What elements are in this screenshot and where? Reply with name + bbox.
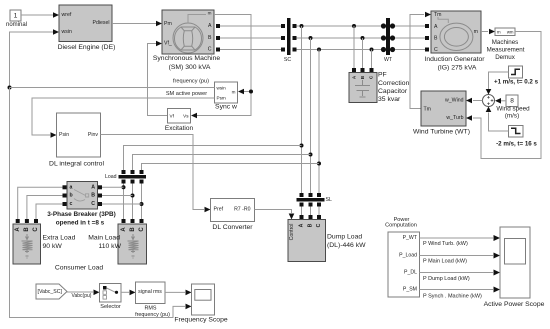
svg-text:-2 m/s, t= 16 s: -2 m/s, t= 16 s [496, 141, 537, 148]
svg-text:P_DL: P_DL [404, 270, 417, 276]
svg-text:P Dump Load (kW): P Dump Load (kW) [423, 276, 470, 282]
svg-text:Psin: Psin [59, 132, 69, 138]
svg-text:A: A [299, 223, 305, 227]
wire P_Load to scope [420, 253, 501, 265]
wire sum to WT w_Wind [466, 98, 483, 104]
svg-text:(IG) 275 kVA: (IG) 275 kVA [438, 65, 477, 72]
svg-text:Excitation: Excitation [165, 125, 194, 132]
svg-text:C: C [91, 201, 95, 207]
svg-text:Pm: Pm [164, 21, 172, 27]
wire SM m to Sync w and Excitation [191, 15, 253, 119]
wire SL bus to Dump Load [302, 207, 320, 216]
svg-text:Dump Load: Dump Load [327, 234, 362, 241]
subsystem Sync w [215, 82, 238, 111]
svg-text:[Vabc_SC]: [Vabc_SC] [38, 289, 63, 295]
svg-text:A: A [121, 227, 127, 232]
svg-text:(SM) 300 kVA: (SM) 300 kVA [169, 64, 211, 71]
load Main Load 110 kW [88, 219, 146, 264]
svg-text:DL integral control: DL integral control [49, 161, 104, 168]
induction generator IG block [424, 11, 485, 72]
svg-text:R7 -R0: R7 -R0 [234, 207, 251, 213]
SM phase port squares [216, 24, 220, 52]
sum block wind speed [483, 95, 495, 107]
svg-text:Frequency Scope: Frequency Scope [174, 317, 227, 324]
svg-text:w_Turb: w_Turb [446, 115, 463, 121]
subsystem Diesel Engine (DE) [58, 5, 116, 51]
svg-text:wm: wm [507, 29, 514, 34]
svg-text:Correction: Correction [378, 80, 410, 87]
wire step2 to sum [486, 107, 509, 132]
wire three-phase SC bus to WT bus [297, 24, 382, 52]
svg-text:m: m [497, 29, 501, 34]
svg-text:+1 m/s, t= 0.2 s: +1 m/s, t= 0.2 s [494, 79, 539, 86]
wire breaker inputs from Extra Load [18, 187, 63, 219]
svg-text:SL: SL [326, 197, 332, 203]
step source +1 m/s t=0.2s [494, 66, 539, 86]
svg-text:Tm: Tm [424, 107, 432, 113]
wire step1 to sum [486, 72, 509, 95]
svg-text:frequency (pu): frequency (pu) [173, 79, 209, 85]
bus Load [105, 170, 146, 184]
wire SM active power from Sync w Psm to DL integral control [32, 91, 215, 138]
svg-text:Psm: Psm [217, 96, 226, 101]
bus SC [281, 18, 297, 63]
svg-text:SC: SC [284, 57, 291, 63]
svg-text:c: c [70, 201, 73, 207]
svg-text:Vf: Vf [170, 113, 175, 118]
svg-text:B: B [130, 227, 136, 232]
breaker 3-Phase Breaker (3PB) [47, 182, 116, 227]
svg-text:P_Load: P_Load [399, 253, 417, 259]
svg-text:P Main Load (kW): P Main Load (kW) [423, 258, 467, 264]
wire Selector to RMS [121, 290, 136, 296]
from tag Vabc_SC [36, 284, 67, 299]
wire P_SM to scope [420, 287, 501, 300]
demux Machines Measurement Demux [487, 28, 525, 61]
wire three-phase WT bus to IG [395, 24, 429, 52]
svg-text:DL Converter: DL Converter [212, 224, 253, 231]
svg-text:(DL)-446 kW: (DL)-446 kW [327, 242, 366, 249]
svg-text:Load: Load [105, 174, 117, 180]
wire P_WT to scope [420, 235, 501, 247]
scope Active Power Scope [484, 227, 545, 308]
svg-text:opened in t =8 s: opened in t =8 s [56, 220, 105, 227]
svg-text:signal rms: signal rms [138, 289, 162, 295]
svg-text:1: 1 [14, 13, 18, 20]
svg-text:B: B [434, 36, 438, 42]
svg-text:Sync w: Sync w [215, 104, 237, 111]
svg-text:A: A [434, 24, 438, 30]
svg-text:P Synch . Machine (kW): P Synch . Machine (kW) [423, 293, 482, 299]
wire Vf from Excitation to SM [148, 41, 168, 116]
svg-text:A: A [208, 23, 212, 29]
svg-text:35 kvar: 35 kvar [378, 96, 401, 103]
capacitor PF Correction Capacitor 35 kvar [349, 68, 410, 103]
wire R7-R0 to Dump Load control [255, 210, 295, 220]
svg-text:nominal: nominal [6, 22, 27, 28]
svg-text:PF: PF [378, 72, 387, 79]
svg-text:Vf_: Vf_ [164, 41, 172, 47]
svg-text:B: B [24, 227, 30, 232]
subsystem Wind Turbine (WT) [413, 91, 470, 136]
constant block "1" nominal [6, 10, 27, 28]
scope Frequency Scope [174, 284, 227, 324]
svg-text:B: B [308, 223, 314, 227]
wire demux wm to WT w_Turb [466, 32, 541, 159]
svg-text:RMS: RMS [145, 306, 157, 312]
wire IG m to demux [481, 29, 495, 35]
svg-text:Demux: Demux [495, 54, 516, 61]
svg-text:Vs: Vs [183, 113, 189, 118]
wire Pdiesel to Pm [112, 21, 162, 27]
svg-text:Pref: Pref [214, 207, 224, 213]
svg-text:C: C [139, 227, 145, 232]
svg-text:Machines: Machines [492, 39, 518, 46]
svg-text:A: A [91, 184, 95, 190]
wire frequency (pu) from Sync w wsin to left rail [10, 79, 215, 88]
svg-text:Main Load: Main Load [88, 235, 120, 242]
wire Vabc to Selector [67, 290, 100, 300]
svg-text:C: C [316, 223, 322, 227]
constant 8 [496, 95, 530, 120]
svg-text:Capacitor: Capacitor [378, 88, 408, 95]
wire frequency rail to Frequency Scope [10, 88, 192, 318]
svg-text:Active Power Scope: Active Power Scope [484, 301, 545, 308]
svg-text:Pinv: Pinv [88, 132, 98, 138]
wire WT Tm to IG Tm [410, 12, 431, 109]
svg-text:Computation: Computation [385, 223, 417, 229]
wire wsin frequency feedback into Diesel Engine [8, 29, 60, 89]
svg-text:B: B [208, 35, 212, 41]
subsystem DL integral control [49, 113, 104, 168]
svg-text:Wind Turbine (WT): Wind Turbine (WT) [413, 129, 470, 136]
wire phase drops to PF capacitor [354, 26, 372, 68]
subsystem DL Converter [211, 199, 255, 232]
wire nominal to wref [21, 12, 59, 18]
svg-text:m: m [208, 11, 212, 16]
bus SL [297, 193, 332, 207]
svg-text:a: a [70, 184, 73, 190]
synchronous machine SM block [153, 10, 220, 71]
label Consumer Load [55, 265, 104, 272]
svg-text:P Wind Turb. (kW): P Wind Turb. (kW) [423, 241, 468, 247]
svg-text:SM active power: SM active power [166, 91, 207, 97]
wire P_DL to scope [420, 270, 501, 282]
svg-text:C: C [33, 227, 39, 232]
svg-text:Control: Control [289, 224, 295, 241]
wire RMS to Frequency Scope [165, 290, 192, 296]
step source -2 m/s t=16s [496, 126, 537, 148]
subsystem Excitation [165, 109, 194, 133]
svg-text:Consumer Load: Consumer Load [55, 265, 104, 272]
svg-text:WT: WT [384, 57, 393, 63]
svg-text:90 kW: 90 kW [43, 243, 63, 250]
wire constant 8 to sum [495, 98, 506, 104]
svg-text:m: m [474, 29, 478, 35]
wire phase drops to SL bus [300, 26, 322, 193]
wire Load bus risers to phase drops [124, 146, 320, 171]
svg-text:3-Phase Breaker (3PB): 3-Phase Breaker (3PB) [47, 211, 116, 218]
svg-text:(m/s): (m/s) [505, 113, 519, 120]
svg-text:Extra Load: Extra Load [43, 235, 76, 242]
svg-text:b: b [70, 193, 73, 199]
load Dump Load (DL)-446 kW [288, 215, 366, 262]
svg-text:Tm: Tm [434, 12, 442, 18]
svg-text:Measurement: Measurement [487, 47, 525, 54]
svg-text:Vabc(pu): Vabc(pu) [72, 293, 92, 299]
svg-text:wref: wref [62, 12, 72, 18]
svg-text:8: 8 [510, 97, 514, 104]
svg-text:Diesel Engine (DE): Diesel Engine (DE) [58, 44, 116, 51]
svg-text:A: A [15, 227, 21, 232]
svg-text:wsin: wsin [217, 85, 227, 90]
subsystem Power Computation [385, 217, 419, 297]
svg-text:Pdiesel: Pdiesel [92, 20, 109, 26]
svg-text:P_WT: P_WT [403, 235, 418, 241]
svg-text:110 kW: 110 kW [98, 243, 121, 250]
wire three-phase SM to SC bus [220, 26, 281, 50]
svg-text:P_SM: P_SM [403, 287, 417, 293]
selector block [100, 284, 122, 311]
svg-text:B: B [91, 193, 95, 199]
load Extra Load 90 kW [13, 219, 76, 264]
svg-text:m: m [232, 90, 236, 95]
wire Load bus to Main Load and breaker taps [122, 184, 144, 220]
svg-text:wsin: wsin [62, 29, 72, 35]
bus WT [381, 18, 395, 63]
svg-text:w_Wind: w_Wind [445, 98, 464, 104]
svg-text:frequency (pu): frequency (pu) [135, 312, 170, 318]
svg-text:Induction Generator: Induction Generator [424, 56, 485, 63]
svg-text:C: C [434, 47, 438, 53]
svg-text:Wind speed: Wind speed [496, 106, 530, 113]
svg-text:C: C [208, 47, 212, 53]
wire Pinv to DL Converter Pref [101, 135, 211, 213]
wire breaker outputs A B C [102, 187, 142, 204]
svg-text:Synchronous Machine: Synchronous Machine [153, 55, 220, 62]
svg-text:Selector: Selector [100, 304, 121, 310]
block signal rms [135, 282, 170, 318]
